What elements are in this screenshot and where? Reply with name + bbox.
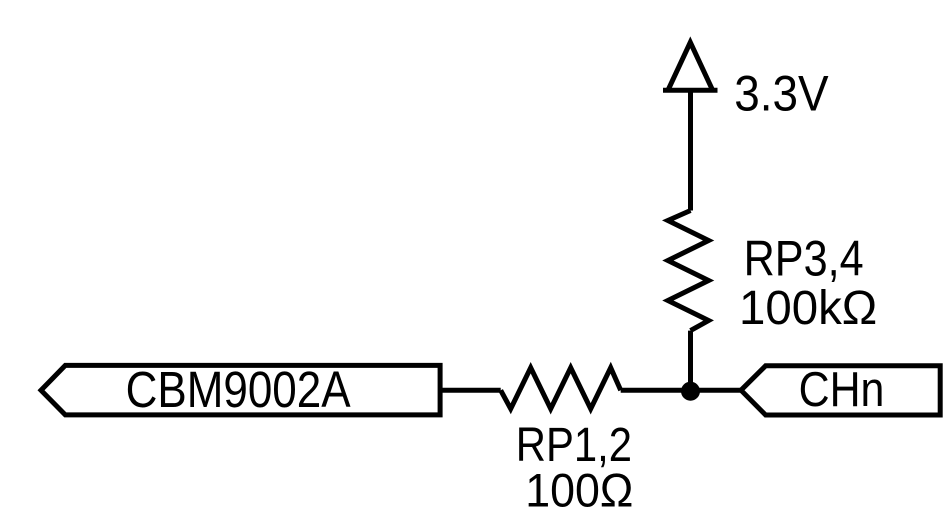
net flag CHn: [741, 366, 940, 415]
svg-text:3.3V: 3.3V: [734, 65, 829, 121]
wire junction to CHn flag: [691, 388, 742, 393]
wire RP1,2 to junction: [621, 388, 691, 393]
net flag CBM9002A: [41, 365, 440, 415]
wire RP3,4 to junction: [688, 331, 693, 391]
wire power to RP3,4: [688, 90, 693, 210]
svg-text:RP3,4: RP3,4: [744, 231, 864, 287]
resistor RP1,2: [501, 368, 621, 409]
svg-text:CHn: CHn: [799, 363, 885, 417]
svg-text:100kΩ: 100kΩ: [739, 281, 877, 335]
svg-text:100Ω: 100Ω: [525, 464, 633, 509]
wire CBM9002A flag to RP1,2: [440, 388, 501, 393]
resistor RP3,4: [668, 211, 709, 331]
power symbol 3.3V (triangle): [663, 42, 718, 90]
svg-text:CBM9002A: CBM9002A: [126, 361, 351, 418]
junction node: [681, 382, 700, 401]
